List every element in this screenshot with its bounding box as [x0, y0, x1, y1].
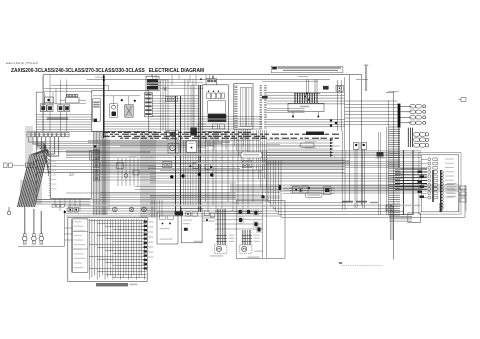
small comp pair b circle [174, 98, 176, 100]
relay R2 fill [48, 106, 52, 110]
connector pair a row 1 [410, 105, 415, 108]
wire panel-monitor v 2 [162, 79, 164, 131]
wire band dash r1 x204 [205, 133, 210, 135]
wire vertical bundle L2 5 [148, 132, 150, 219]
wire band dash r0 x164 [164, 131, 170, 133]
connector2 ring row 1 [425, 133, 428, 136]
right column dash row 2 [389, 128, 401, 130]
asterisk note mark [339, 262, 342, 264]
fusible link stub left [60, 99, 66, 101]
pin column B dash 16 [264, 110, 267, 112]
lamp area corner vertical [64, 210, 66, 246]
pin column B dash 3 [264, 88, 267, 90]
lamp top tab 1 [23, 234, 26, 236]
central grid vertical 17 [130, 219, 132, 278]
wire mid bundle c 4 [150, 180, 403, 182]
controller pin dash 6 [234, 94, 237, 96]
pin column B dash 5 [264, 91, 267, 93]
washer motor M stroke 1 [242, 248, 244, 250]
wire band dash r1 x272 [272, 133, 279, 135]
right frame circle 12 [441, 204, 444, 207]
wire vertical mid-right 10 [247, 131, 249, 208]
controller pin dash 4 [234, 90, 237, 92]
wire left bundle h 7 [36, 129, 92, 131]
relay R4 fill [65, 106, 69, 110]
fusible link loop 1 [66, 94, 69, 97]
central grid vertical 9 [109, 219, 111, 276]
wire long mid bundle 3 [66, 153, 421, 155]
wire below monitor ext 1 [196, 121, 262, 123]
wire band dash r1 x302 [302, 133, 309, 135]
central block right nub 7 [144, 246, 147, 248]
wire left-low h 2 [36, 201, 90, 203]
wire band dash r3 x184 [185, 137, 190, 139]
controller pin dash 19 [234, 116, 237, 118]
wire vertical bundle L1 extra b [108, 139, 110, 210]
wire left inner vertical [35, 92, 37, 202]
label near bus B [356, 79, 368, 80]
wire panel-monitor h 5 [152, 105, 199, 107]
washer motor wires A line 2 [243, 230, 245, 245]
mid dot a [189, 165, 191, 167]
wire bar to connector 3 [400, 116, 411, 118]
mr label strip [307, 194, 320, 196]
pin column B dash 11 [264, 102, 267, 104]
fuse block cell 3 [214, 80, 217, 82]
wire relay3 down [60, 112, 62, 132]
terminal arrow 3 [330, 145, 333, 147]
fuse cluster vertical strip 1 [294, 94, 296, 104]
diagonal bundle wire 7 [28, 155, 41, 207]
wire band dash r3 x240 [240, 137, 243, 139]
fuse list text row 6 [74, 244, 86, 245]
pin column A dash 12 [260, 103, 263, 105]
ICF pin label 6 [51, 179, 56, 180]
central grid vertical 20 [138, 219, 140, 278]
prong label right 2 [254, 238, 260, 239]
wire panel-monitor h 6 [152, 108, 199, 110]
gray pair x266 [266, 150, 268, 258]
nested frame horizontal 5 [278, 213, 413, 215]
wire mesh mid-left h 5 [100, 176, 156, 178]
wire band dash r2 x178 [178, 135, 182, 137]
harness row label 6 [445, 180, 454, 181]
hour meter box [336, 85, 343, 91]
pin column B dash 12 [264, 103, 267, 105]
mr dot a [299, 189, 301, 191]
right edge connector 2 [460, 192, 466, 196]
wire band dash r1 x144 [145, 133, 150, 135]
fusible link loop 3 [72, 94, 75, 97]
wire vertical bundle L2 1 [140, 132, 142, 219]
wire horizontal y91 [44, 90, 92, 92]
right frame circle 6 [441, 186, 444, 189]
controller pin dash 7 [234, 95, 237, 97]
right frame circle 10 [441, 198, 444, 201]
tiny top-right connector [461, 98, 466, 102]
relay blob K4 socket [238, 217, 243, 223]
mid dot b [210, 166, 212, 168]
wire lower bundle 1 [267, 119, 345, 121]
wire bc 2 [202, 220, 215, 222]
left gray column [25, 126, 33, 166]
starter switch box [125, 105, 134, 118]
wire vertical mid-right 4 [215, 131, 217, 214]
harness row wire 6 [421, 180, 427, 182]
fuse list inner box [73, 219, 88, 273]
wire mr conn v4 [364, 150, 366, 209]
controller pin dash 3 [234, 88, 237, 90]
wire vertical bundle L2 7 [152, 132, 154, 219]
relay R3 box [58, 105, 64, 112]
relay blob K5 [254, 222, 257, 226]
mr box 3 [324, 187, 332, 195]
harness row wire 4 [421, 171, 427, 173]
nested gray band left part [68, 205, 270, 207]
relay circle top 1 [113, 207, 118, 212]
mr box 2 [302, 186, 308, 193]
small unit box C [133, 170, 139, 175]
wire band dash r1 x320 [320, 133, 323, 135]
wire band dash r1 x122 [122, 133, 129, 135]
wire lower bundle 4 [267, 126, 345, 128]
node circle 4 [210, 173, 213, 176]
central grid horizontal 14 [97, 259, 147, 261]
central grid horizontal 3 [105, 226, 147, 228]
connector pair b row 3 [416, 116, 421, 119]
motor label right [254, 251, 263, 252]
monitor dark band 2 [208, 119, 227, 122]
wire band dash r1 x160 [161, 133, 168, 135]
right edge connector 1 [460, 186, 466, 190]
relay circle top 2 [129, 207, 134, 212]
wire vertical bundle L2 2 [142, 132, 144, 219]
central grid vertical 5 [99, 219, 101, 278]
wire controller-right 2 [267, 94, 345, 96]
lamp area bottom line [18, 245, 65, 247]
wire vertical x337 [336, 80, 338, 131]
wire band dash r2 x148 [148, 135, 152, 137]
top connector inner 3 [36, 133, 39, 135]
mid-right label lines [375, 158, 385, 159]
lamp top tab 3 [40, 234, 43, 236]
wire panel-monitor v 3 [165, 79, 167, 131]
pin column B dash 15 [264, 108, 267, 110]
connector2 pair a row 3 [414, 143, 420, 147]
controller pin dash 24 [234, 125, 237, 127]
wire rf edge 2 [459, 194, 466, 196]
fuse cluster top line [294, 92, 320, 94]
controller pin dash 10 [234, 100, 237, 102]
right frame circle 5 [441, 183, 444, 186]
wire mesh extra c 3 [290, 190, 421, 192]
wire panel-monitor h 7 [152, 110, 199, 112]
nested gray band [270, 205, 420, 207]
wire mesh center h 5 [148, 166, 262, 168]
white box dot [191, 147, 193, 149]
wire bar to connector 2 [400, 111, 411, 113]
wire left v b [52, 92, 54, 105]
harness row circle 9 [428, 192, 431, 195]
wire vertical bundle L2 4 [146, 132, 148, 219]
wire band dash r1 x140 [140, 133, 143, 135]
junction left-low [64, 211, 66, 213]
connector2 pair b row 3 [420, 143, 426, 147]
top connector 6 [48, 133, 51, 137]
key switch box [110, 104, 118, 117]
pin column B dash 20 [264, 117, 267, 119]
connector pair a row 2 [410, 110, 415, 113]
right frame 8-circle a1 [439, 203, 442, 206]
wire band dash r1 x170 [170, 133, 173, 135]
wire mid bundle c 1 [150, 173, 403, 175]
diagonal bundle wire 3 [21, 155, 34, 207]
wire bundle right 3 [345, 107, 398, 109]
wire band dash r1 x280 [281, 133, 288, 135]
controller pin dash 5 [234, 92, 237, 94]
wire panel-monitor h 1 [152, 95, 199, 97]
wiper motor bottom label [210, 255, 223, 256]
wire bar to connector 1 [400, 105, 411, 107]
wiper companion inner b [168, 215, 174, 220]
staircase into box pin 3 [42, 152, 48, 164]
right frame 8-circle a3 [439, 209, 442, 212]
central block right label 2 [148, 227, 153, 228]
fuse cluster vertical strip 8 [311, 94, 313, 104]
wire stub top box [212, 75, 214, 79]
fuse symbol row box 2 [56, 205, 59, 208]
label on far right bus [386, 92, 395, 93]
wire vertical x410 [409, 128, 411, 147]
wire into right frame 3 [345, 164, 421, 166]
wire band dash r2 x261 [262, 135, 266, 137]
ICF side connector 1 [94, 150, 100, 155]
controller pin dash 21 [234, 119, 237, 121]
nested frame right vertical [464, 185, 466, 217]
wire band dash r0 x201 [202, 131, 206, 133]
pin column A dash 17 [260, 112, 263, 114]
wire pin column drop 6 [266, 130, 268, 188]
wire relay drop 2 [49, 75, 51, 105]
ICF pin label 4 [51, 170, 56, 171]
right column dash row 14 [389, 155, 401, 157]
ICF pin stub 13 [49, 182, 51, 184]
harness row circle 5 [428, 175, 431, 178]
lamp label 2 [31, 243, 36, 246]
fuse symbol row box 3 [61, 205, 64, 208]
central grid horizontal 15 [105, 262, 147, 264]
pin column A dash 25 [260, 125, 263, 127]
right frame circle 2 [441, 174, 444, 177]
wire long mid2 1 [36, 160, 344, 162]
central block right nub 5 [144, 238, 147, 240]
switch panel frame [92, 91, 149, 132]
nested frame horizontal 4 [276, 210, 404, 212]
thick connector bar [398, 104, 401, 128]
wire long mid2 3 [36, 166, 344, 168]
monitor dark band 1 [208, 114, 227, 118]
harness row rect 6 [433, 179, 438, 182]
relay circle X1 3 [143, 208, 146, 211]
wire pair above main a [364, 65, 366, 91]
wire band dash r0 x171 [172, 131, 176, 133]
right frame circle 8 [441, 192, 444, 195]
wire vertical mid 2 [185, 140, 187, 205]
relay R1 fill [41, 106, 45, 110]
relay circle X1 2 [130, 208, 133, 211]
wire below monitor ext 3 [196, 126, 262, 128]
wire mesh center h 12 [100, 197, 236, 199]
switch sub hatch 1 [93, 102, 99, 104]
wire band dash r2 x238 [238, 135, 242, 137]
fuse cluster vertical strip 7 [309, 94, 311, 104]
wiper motor wires B line 3 [225, 209, 227, 245]
wire long mid bundle 1 [66, 150, 421, 152]
fuse cluster vertical strip 10 [316, 94, 318, 104]
wire band dash r1 x200 [200, 133, 203, 135]
wire fuse pair up b2 [316, 79, 318, 93]
top connector inner 7 [53, 133, 56, 135]
monitor dot 1 [208, 91, 209, 92]
pin column A dash 19 [260, 115, 263, 117]
fuse list text row 1 [74, 221, 82, 222]
wire mesh extra d 1 [150, 195, 280, 197]
pin column A dash 2 [260, 86, 263, 88]
right harness outer frame [419, 153, 461, 215]
controller pin drop 4 [240, 129, 242, 161]
wire mesh mid-left h 1 [100, 165, 156, 167]
wire band dash r2 x153 [154, 135, 162, 137]
wire mid bundle d 1 [230, 184, 459, 186]
central grid vertical 7 [104, 219, 106, 280]
wiper companion strip 2 [160, 239, 173, 240]
junction y79 dot [200, 78, 202, 80]
wire band dash r2 x111 [112, 135, 116, 137]
key switch dark blob [112, 112, 117, 117]
controller pin dash 2 [234, 87, 237, 89]
right column dash row 17 [389, 161, 401, 163]
wire pin column drop 2 [258, 130, 260, 179]
wire pin column drop 5 [264, 130, 266, 179]
harness row wire 5 [421, 175, 427, 177]
prong tick left 3 [216, 241, 227, 243]
relay blob K3 socket [253, 210, 258, 216]
wiper dark component [184, 228, 188, 231]
wire panel-monitor v 4 [167, 79, 169, 131]
central block left feed 3 [65, 239, 73, 241]
ICF pin stub 6 [49, 166, 51, 168]
right column dash row 4 [389, 133, 401, 135]
connector2 ring row 3 [425, 144, 428, 147]
central grid vertical 11 [115, 219, 117, 278]
ICF side connector fill 3 [95, 164, 99, 167]
wire mesh extra b 6 [263, 168, 345, 170]
wire mid bundle b 3 [100, 163, 350, 165]
wire long left y199 [36, 199, 268, 201]
controller pin dash 1 [234, 85, 237, 87]
right column dash row 24 [389, 177, 401, 179]
connector ring row 2 [423, 110, 426, 113]
wire band dash r2 x164 [164, 135, 170, 137]
central grid vertical 2 [91, 219, 93, 278]
panel right block hatch 4 [145, 105, 151, 107]
right column dash row 21 [389, 170, 401, 172]
terminal label b [305, 147, 316, 148]
relay cluster frame [236, 201, 285, 259]
wire band dash r0 x141 [142, 131, 146, 133]
washer motor wires B line 2 [248, 230, 250, 245]
wire right vertical bus B [361, 75, 363, 206]
prong tick right 2 [242, 237, 253, 239]
double circle comp A c2 [167, 163, 170, 166]
wire vertical bundle L2 3 [144, 132, 146, 219]
fusible link loop 2 [69, 94, 72, 97]
washer motor M stroke 3 [243, 248, 244, 249]
pin column B dash 25 [264, 125, 267, 127]
pin column A dash 16 [260, 110, 263, 112]
hour meter circle [337, 86, 341, 90]
wire vertical bottom 1 [390, 205, 392, 240]
mid label strip a [129, 156, 137, 157]
wire long mid bundle 5 [66, 156, 421, 158]
asterisk note line [341, 265, 383, 267]
starburst symbol [163, 86, 167, 91]
harness row wire 1 [421, 158, 427, 160]
prong label right 1 [254, 235, 260, 236]
wire vertical bundle L1 3 [96, 132, 98, 216]
wire long left bundle 3 [66, 210, 277, 212]
controller pin dash 23 [234, 123, 237, 125]
monitor cell 1 [207, 93, 211, 99]
diagonal bundle dark patch [20, 180, 42, 204]
battery box dot [47, 99, 50, 102]
mr dot b [308, 187, 310, 189]
wire long mid3 5 [150, 202, 263, 204]
wire bend down at 108 [107, 85, 109, 90]
prong label left 3 [229, 241, 235, 242]
wire sensor feed 3 [267, 112, 305, 114]
wire band dash r0 x134 [134, 131, 140, 133]
fuse cluster vertical strip 9 [314, 94, 316, 104]
wire long mid3 4 [100, 194, 263, 196]
small X box d1 [386, 205, 392, 211]
controller inner rail 1 [242, 88, 244, 127]
diode dot 1 [69, 209, 71, 211]
wiper companion strip [160, 228, 170, 229]
dark bundle row 4 [395, 177, 427, 179]
right frame terminal blob 5 [418, 191, 423, 193]
nested frame horizontal 3 [273, 207, 393, 209]
pin column A dash 1 [260, 85, 263, 87]
monitor pin drop 3 [213, 132, 215, 150]
wire band dash r1 x290 [290, 133, 293, 135]
lamp bottom tab 1 [23, 241, 26, 243]
double circle comp A c1 [164, 163, 167, 166]
wire pin column drop 3 [260, 130, 262, 188]
panel right block hatch 1 [145, 94, 151, 96]
aux box dark bits [170, 132, 176, 137]
top connector inner 10 [66, 133, 69, 135]
pin column B dash 26 [264, 127, 267, 129]
node circle 2 [181, 174, 184, 177]
nested frame vertical 6 [280, 160, 282, 217]
bottom block pin 1 [409, 214, 412, 216]
pin column A dash 9 [260, 98, 263, 100]
terminal wire 1 [267, 139, 330, 141]
connector2 pair a row 2 [414, 138, 420, 142]
fuse cluster vertical strip 6 [306, 94, 308, 104]
top connector 4 [40, 133, 43, 137]
